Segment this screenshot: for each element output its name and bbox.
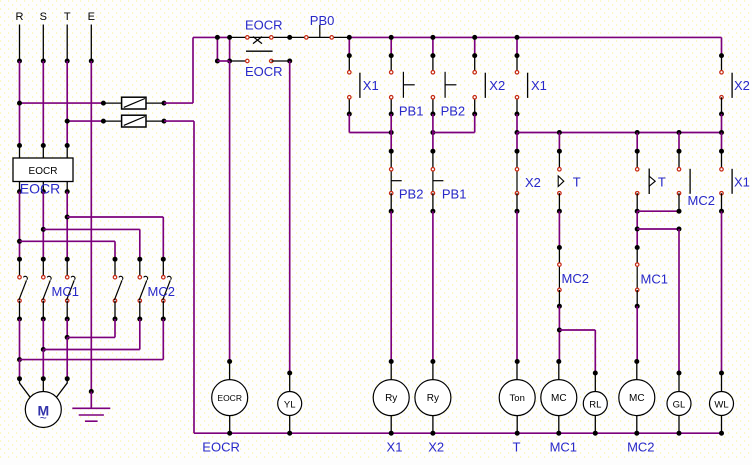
svg-text:MC2: MC2 [562,271,589,286]
svg-text:EOCR: EOCR [20,181,60,197]
wire T phase to EOCR [66,61,68,146]
wire R phase to EOCR [19,61,21,146]
svg-text:X2: X2 [525,175,541,190]
wire rail right corner [721,37,723,55]
wire WL column [721,211,723,373]
node RL branch [557,328,562,333]
node T branch [65,215,70,220]
wire X2 to subrail [721,114,723,133]
wire X1B to subrail [516,114,518,133]
wire T to MC1 pole3 [66,192,68,260]
overload relay EOCR block [17,143,22,148]
wire EOCR coil column [229,61,231,362]
wire RL branch [559,329,595,331]
svg-text:MC1: MC1 [641,272,668,287]
contact X2 NO (seal-in right) [474,37,476,55]
wire MC1/MC2 tie phase R [19,319,21,360]
wire R to MC2 pole1 [20,240,116,242]
contact X2 NO (WL branch) [719,53,724,58]
svg-text:S: S [40,11,47,23]
contactor MC2 pole 2 [137,257,142,262]
wire top rail [193,36,230,38]
svg-text:E: E [88,11,95,23]
node motor V [41,376,46,381]
wire PB1 column mid [390,114,392,151]
wire E phase down [90,61,92,392]
svg-text:X2: X2 [489,78,505,93]
svg-text:X1: X1 [363,78,379,93]
wire S to MC1 pole2 [42,192,44,260]
wire EOCR coil drop link [229,37,231,61]
svg-text:~: ~ [40,411,47,425]
wire fuse F2 feed [67,120,103,122]
svg-text:MC2: MC2 [627,440,654,455]
contact X2 NC to timer coil [516,133,518,152]
svg-text:R: R [16,11,24,23]
svg-text:GL: GL [673,399,686,410]
wire to relay X2 coil [432,211,434,361]
lamp RL [594,373,596,392]
contact EOCR NC trip [247,36,271,38]
svg-text:X1: X1 [734,174,750,189]
svg-text:EOCR: EOCR [217,393,242,403]
contactor MC2 pole 1 [113,257,118,262]
contactor coil MC1 [556,359,561,364]
wire tie T2-MC2NC [637,210,679,212]
contactor MC1 pole 2 [41,257,46,262]
relay coil Ry X2 [432,362,434,380]
wire GL column [678,229,680,373]
wire subrail [517,132,722,134]
svg-text:EOCR: EOCR [245,17,283,32]
svg-text:MC: MC [551,393,567,404]
wire YL column [289,61,291,373]
svg-text:Ton: Ton [510,393,525,404]
svg-text:EOCR: EOCR [29,166,58,177]
svg-text:PB1: PB1 [399,104,424,119]
node S [41,59,46,64]
node rail YL [287,35,292,40]
node motor U [17,376,22,381]
wire to relay X1 coil [390,211,392,361]
wire F2 to control bottom rail [164,120,194,122]
wire S phase upper [42,25,44,62]
lamp GL [678,373,680,392]
node R branch [17,239,22,244]
wire MC1/MC2 tie phase S [42,319,44,350]
fuse F1 [103,102,121,104]
pushbutton PB1 NC interlock [430,149,435,154]
ground [89,389,94,394]
node T [65,59,70,64]
wire MC1/MC2 tie phase T [66,319,68,337]
pushbutton PB0 NC [305,36,309,40]
svg-text:PB2: PB2 [441,104,466,119]
lamp YL [289,373,291,392]
wire S to MC2 pole2 [43,228,140,230]
contact MC1 NC interlock [635,245,640,250]
contact MC2 NC interlock [557,245,562,250]
wire R phase upper [19,25,21,62]
wire T to MC2 pole3 [67,216,163,218]
svg-text:Ry: Ry [427,393,439,404]
wire T1 column mid [558,211,560,247]
contact MC2 NC (GL branch) [678,133,680,152]
node GL tie right [677,227,682,232]
svg-text:WL: WL [714,399,728,410]
svg-text:EOCR: EOCR [245,64,283,79]
node GL tie left [635,227,640,232]
svg-text:X1: X1 [531,78,547,93]
svg-text:X2: X2 [428,440,444,455]
svg-text:MC2: MC2 [148,284,175,299]
pushbutton PB1 NO [390,37,392,55]
node subrail left [515,130,520,135]
svg-text:YL: YL [284,399,296,410]
node PB2/X2 junction [430,130,435,135]
wire fuse F1 feed [20,102,104,104]
wire rail to row2 link [216,37,218,61]
node subrail MC2NC [677,130,682,135]
wire motor feeds [19,360,21,379]
node subrail T contact [557,130,562,135]
svg-text:MC2: MC2 [688,193,715,208]
timer contact T NC [636,133,638,152]
relay coil Ry X1 [390,362,392,380]
wire T2 column [636,211,638,247]
fuse F2 [103,120,121,122]
svg-text:T: T [64,11,71,23]
svg-text:MC1: MC1 [52,284,79,299]
wire F1 to control rail [164,102,193,104]
wire T phase upper [66,25,68,62]
wire S phase to EOCR [42,61,44,146]
svg-text:EOCR: EOCR [202,440,240,455]
svg-text:PB0: PB0 [310,13,335,28]
wire to MC1 coil [558,306,560,361]
motor M [20,379,32,399]
wire to timer coil [516,211,518,361]
svg-text:MC1: MC1 [550,440,577,455]
svg-text:T: T [513,440,521,455]
svg-text:X1: X1 [387,440,403,455]
svg-text:T: T [573,174,581,189]
svg-text:PB2: PB2 [399,187,424,202]
node subrail right [719,130,724,135]
lamp WL [721,373,723,392]
relay coil EOCR [229,362,231,380]
node E [89,59,94,64]
pushbutton PB2 NC interlock [389,149,394,154]
node PB1/X1 junction [389,130,394,135]
contactor coil MC2 [636,362,638,380]
svg-text:X2: X2 [734,78,750,93]
contactor MC2 pole 3 [161,257,166,262]
node motor W [65,376,70,381]
timer coil Ton [516,362,518,380]
svg-text:Ry: Ry [385,393,397,404]
wire E phase upper [90,25,92,62]
svg-text:MC: MC [629,393,645,404]
svg-text:RL: RL [589,399,601,410]
contact X1 NO (seal-in left) [348,37,350,55]
wire R to MC1 pole1 [19,192,21,260]
wire X2 branch to PB2 column [474,114,476,133]
wire bottom rail [194,432,722,434]
contactor MC1 pole 1 [17,257,22,262]
pushbutton PB2 NO [432,37,434,55]
node subrail T2 [635,130,640,135]
wire to MC2 coil [636,306,638,361]
contactor MC1 pole 3 [65,257,70,262]
contact X1 NO (WL branch) [721,133,723,152]
node S branch [41,227,46,232]
svg-text:T: T [658,174,666,189]
contact X1 NO (timer branch) [516,37,518,55]
node R [17,59,22,64]
wire PB2 column mid [432,114,434,151]
wire X1 branch to PB1 column [348,114,350,133]
timer contact T NO [558,133,560,152]
wire GL tie [637,228,679,230]
svg-text:PB1: PB1 [442,187,467,202]
contact EOCR NO [217,60,229,62]
